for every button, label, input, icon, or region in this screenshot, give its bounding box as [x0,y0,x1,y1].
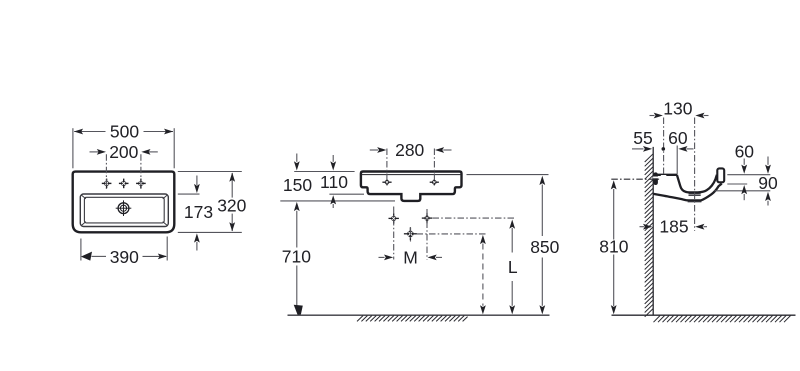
svg-text:810: 810 [599,237,628,257]
bowl corner chamfer TL [82,195,86,199]
centerline drain axis vertical [694,118,696,231]
svg-text:390: 390 [110,247,139,267]
bowl corner chamfer TR [163,195,167,199]
chunky arrow 710 bottom [294,305,303,315]
dim 173 [178,176,200,251]
svg-text:710: 710 [282,247,311,267]
drain cross center [404,227,417,240]
centerline right cross horizontal to L [433,217,515,219]
dashed vertical dimension (drain height) [482,244,484,306]
drain symbol [116,200,132,216]
bowl inner edge [84,197,164,223]
tap hole slit [661,175,667,177]
svg-text:850: 850 [530,237,559,257]
svg-text:500: 500 [110,122,139,142]
svg-text:150: 150 [283,175,312,195]
outer shell underside [654,184,722,201]
rim lip (overflow channel) [717,168,724,182]
extension line rim top right [727,174,770,176]
dim 710 line [296,211,298,306]
dim 200 [90,152,158,189]
floor line middle [288,314,550,316]
centerline right cross vertical [426,209,428,260]
basin front outline [361,172,462,201]
dim 60 right [743,159,745,165]
bowl inner profile [677,175,717,193]
svg-text:L: L [508,257,518,277]
dim 150 arrows [296,154,298,162]
extension line basin top left [294,171,354,173]
dim 850 [467,174,549,176]
dim terminator dot [662,147,666,151]
faucet hole symbol left [102,179,112,189]
faucet hole symbol right [136,179,146,189]
fixing cross left [389,213,399,223]
fixing cross right [422,213,432,223]
dim 55 [632,148,644,150]
extension line underside [715,190,771,192]
extension line body bottom [329,193,364,195]
centerline fixing axis horizontal [611,178,659,180]
floor hatch middle [357,316,468,322]
basin side profile: top ledge [654,174,678,176]
centerline left cross vertical [393,207,395,260]
svg-text:280: 280 [395,140,424,160]
svg-text:185: 185 [659,217,688,237]
extension line 60-left vertical [676,146,678,175]
mounting hole cross right [430,179,439,185]
chunky arrow 390 left [81,252,92,261]
svg-text:90: 90 [758,173,778,193]
floor hatch right [654,316,791,323]
bowl corner chamfer BL [82,222,86,226]
extension line drain bottom [280,200,395,202]
centerline center cross vertical [410,228,412,242]
dim M [379,256,443,258]
rim inner line [362,174,461,176]
fixing bolt blob [653,172,658,185]
dim 810 [613,189,615,306]
drain flange lines [688,194,702,202]
svg-text:320: 320 [217,196,246,216]
svg-text:M: M [403,247,418,267]
dim 110 arrows [332,155,334,162]
centerline fixing axis vertical [663,118,665,174]
centerline center cross horizontal [417,233,487,235]
wall hatch [645,154,654,317]
bowl outer edge [80,194,168,227]
mounting hole cross left [382,179,391,185]
svg-text:60: 60 [735,141,755,161]
dim 60 left [687,148,694,150]
svg-text:60: 60 [668,128,688,148]
wall face line [652,147,654,315]
svg-text:55: 55 [633,128,652,148]
bowl corner chamfer BR [163,222,167,226]
svg-text:130: 130 [663,98,692,118]
dim 90 [767,157,769,165]
basin outer rim outline [73,172,175,233]
faucet hole symbol center [119,179,129,189]
floor line right [612,314,796,316]
extension line overflow axis [727,183,747,185]
dim 320 [178,172,242,233]
dim 500 [73,128,174,168]
svg-text:110: 110 [320,172,348,192]
dim 280 [370,149,452,182]
dim 130 [650,115,709,117]
svg-text:173: 173 [184,202,213,222]
dim L [511,228,513,306]
dim 390 [81,237,167,261]
dim 185 [640,226,645,228]
svg-text:200: 200 [109,142,138,162]
